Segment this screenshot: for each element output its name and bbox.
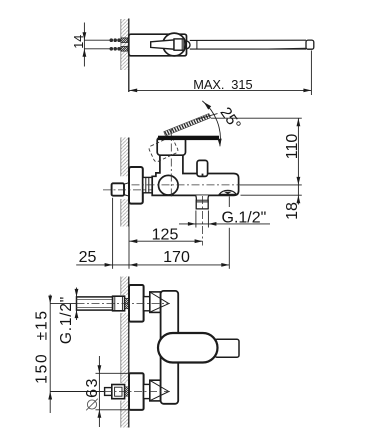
lever head (top view) — [174, 39, 184, 50]
svg-text:14: 14 — [72, 35, 86, 49]
dimension 110/18 vertical line — [297, 118, 299, 204]
dimension G.1/2 (inlet) line — [76, 288, 78, 297]
step piece upper — [144, 297, 150, 311]
inlet stub balls (upper) — [110, 38, 121, 50]
spout bump — [186, 41, 190, 49]
outlet centreline — [201, 196, 203, 246]
body column (bottom view) — [161, 291, 179, 404]
svg-text:25: 25 — [79, 249, 97, 266]
extension lines escutcheon lower — [96, 372, 143, 374]
svg-text:G.1/2": G.1/2" — [58, 296, 75, 344]
wall section lower segment (front view) — [121, 199, 129, 227]
svg-text:150 ±15: 150 ±15 — [34, 309, 51, 384]
wall section upper segment (front view) — [121, 138, 129, 177]
cartridge circle (top view) — [163, 33, 186, 56]
G 1/2 dimension (outlet thread) — [195, 211, 197, 228]
dimension 25/170 line — [76, 264, 229, 266]
dimension 14 line — [83, 23, 85, 67]
inlet rod stub (lower) — [105, 388, 112, 396]
chamfer diagonals lower — [151, 381, 169, 392]
diverter knob — [197, 160, 208, 176]
svg-text:110: 110 — [284, 134, 301, 160]
body centreline — [132, 184, 241, 186]
union ring circle (front view) — [159, 175, 179, 195]
wall face line (bottom view) — [128, 277, 130, 428]
adjusting ring block — [143, 177, 152, 192]
cartridge centreline vertical — [170, 129, 172, 198]
escutcheon upper (bottom view) — [129, 285, 144, 322]
handle lever raised 25 deg (hatched) — [164, 114, 211, 136]
step piece lower — [144, 384, 150, 398]
wall face line — [128, 19, 130, 93]
wand joint line — [196, 40, 198, 49]
extension line centreline right — [240, 184, 302, 186]
handle tip rectangle (bottom view) — [215, 339, 239, 357]
svg-text:MAX.: MAX. — [193, 77, 224, 92]
extension line handle top — [211, 117, 302, 119]
escutcheon (front view) — [129, 167, 143, 204]
mixer body outline (front view) — [152, 155, 238, 195]
bracket body (top view) — [129, 34, 187, 56]
shower wand bottom line — [190, 48, 306, 50]
diameter symbol — [86, 399, 98, 411]
wall section segment 2 (bottom view) — [121, 313, 129, 383]
svg-text:170: 170 — [163, 249, 190, 266]
escutcheon lower (bottom view) — [129, 373, 144, 410]
svg-text:125: 125 — [152, 226, 179, 243]
shower wand top line — [190, 39, 306, 41]
dimension MAX. 315 line — [310, 51, 312, 96]
wall section segment 1 (bottom view) — [121, 277, 129, 296]
dimension 125 line — [129, 240, 202, 242]
wall thread (upper) — [125, 298, 129, 308]
chamfer box upper — [150, 292, 161, 313]
inlet centreline upper — [50, 303, 76, 305]
threaded inlet rod (upper) — [77, 297, 113, 310]
lever bar (top view) — [151, 40, 174, 49]
shower outlet stub — [196, 195, 209, 209]
inlet thread through wall (lower) — [121, 47, 128, 52]
svg-text:18: 18 — [284, 202, 301, 220]
wall section (top view) — [121, 19, 129, 70]
inlet nut (upper) — [113, 296, 125, 311]
arc arrow upper — [204, 102, 211, 110]
extension line union left — [112, 198, 114, 269]
svg-text:G.1/2": G.1/2" — [222, 210, 267, 227]
wall face line (front view) — [128, 138, 130, 227]
inlet nut (lower) — [112, 385, 125, 399]
dimension 63 line — [98, 356, 100, 427]
chamfer box lower — [150, 380, 161, 401]
wand end cap — [306, 40, 314, 49]
wand taper wedge — [255, 48, 306, 49]
inlet centreline (front view) — [103, 189, 154, 191]
extension line wall face lower — [128, 227, 130, 269]
chamfer diagonals upper — [151, 293, 169, 304]
handle lever horizontal (solid black) — [158, 136, 219, 140]
svg-text:63: 63 — [84, 377, 101, 398]
extension line body bottom — [241, 194, 302, 196]
25 deg radial line — [196, 114, 218, 120]
inlet thread through wall (upper) — [121, 38, 128, 43]
handle base — [157, 137, 185, 155]
rotation arc — [202, 101, 220, 146]
svg-text:315: 315 — [231, 77, 252, 92]
arc arrow lower — [218, 139, 222, 147]
wall section segment 3 (bottom view) — [121, 401, 129, 428]
eccentric union nut (front view) — [112, 183, 124, 195]
dimension 150 line — [49, 295, 51, 414]
spout stadium (bottom view) — [158, 333, 218, 363]
wall thread (lower) — [125, 387, 129, 396]
inlet centreline lower — [50, 391, 104, 393]
handle base alternate position (dashed) — [148, 136, 179, 162]
aerator — [219, 190, 236, 194]
stub centre extension lines — [84, 39, 110, 41]
extension line spout outlet — [228, 197, 230, 208]
svg-text:25°: 25° — [216, 104, 243, 133]
union cone lines — [124, 183, 129, 185]
